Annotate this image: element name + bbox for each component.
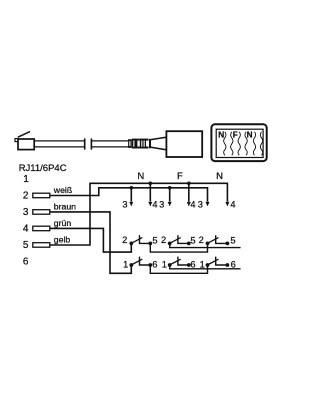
svg-text:3: 3: [198, 199, 203, 209]
svg-text:3: 3: [122, 199, 127, 209]
svg-text:braun: braun: [54, 202, 76, 212]
svg-text:1: 1: [23, 174, 29, 185]
svg-text:5: 5: [190, 236, 195, 246]
svg-text:1: 1: [123, 259, 128, 269]
svg-text:weiß: weiß: [53, 185, 72, 195]
svg-text:5: 5: [23, 240, 29, 251]
svg-text:1: 1: [200, 259, 205, 269]
svg-text:5: 5: [230, 236, 235, 246]
svg-text:N: N: [218, 131, 224, 140]
svg-text:3: 3: [23, 207, 29, 218]
svg-text:4: 4: [152, 199, 157, 209]
svg-text:F: F: [177, 171, 183, 182]
svg-text:5: 5: [152, 236, 157, 246]
svg-text:2: 2: [161, 235, 166, 245]
svg-text:6: 6: [152, 259, 157, 269]
svg-text:1: 1: [162, 259, 167, 269]
svg-text:6: 6: [190, 259, 195, 269]
svg-text:N: N: [216, 171, 223, 182]
svg-text:2: 2: [23, 191, 29, 202]
svg-text:2: 2: [122, 235, 127, 245]
svg-text:grün: grün: [54, 218, 72, 228]
svg-text:RJ11/6P4C: RJ11/6P4C: [19, 163, 67, 174]
svg-text:4: 4: [190, 199, 195, 209]
svg-text:6: 6: [23, 257, 29, 268]
svg-text:N: N: [137, 171, 144, 182]
svg-text:3: 3: [159, 199, 164, 209]
svg-text:N: N: [247, 131, 253, 140]
svg-text:gelb: gelb: [54, 235, 71, 245]
svg-text:2: 2: [199, 235, 204, 245]
svg-text:6: 6: [231, 259, 236, 269]
svg-text:4: 4: [230, 199, 235, 209]
svg-text:F: F: [233, 131, 238, 140]
svg-text:4: 4: [23, 224, 29, 235]
